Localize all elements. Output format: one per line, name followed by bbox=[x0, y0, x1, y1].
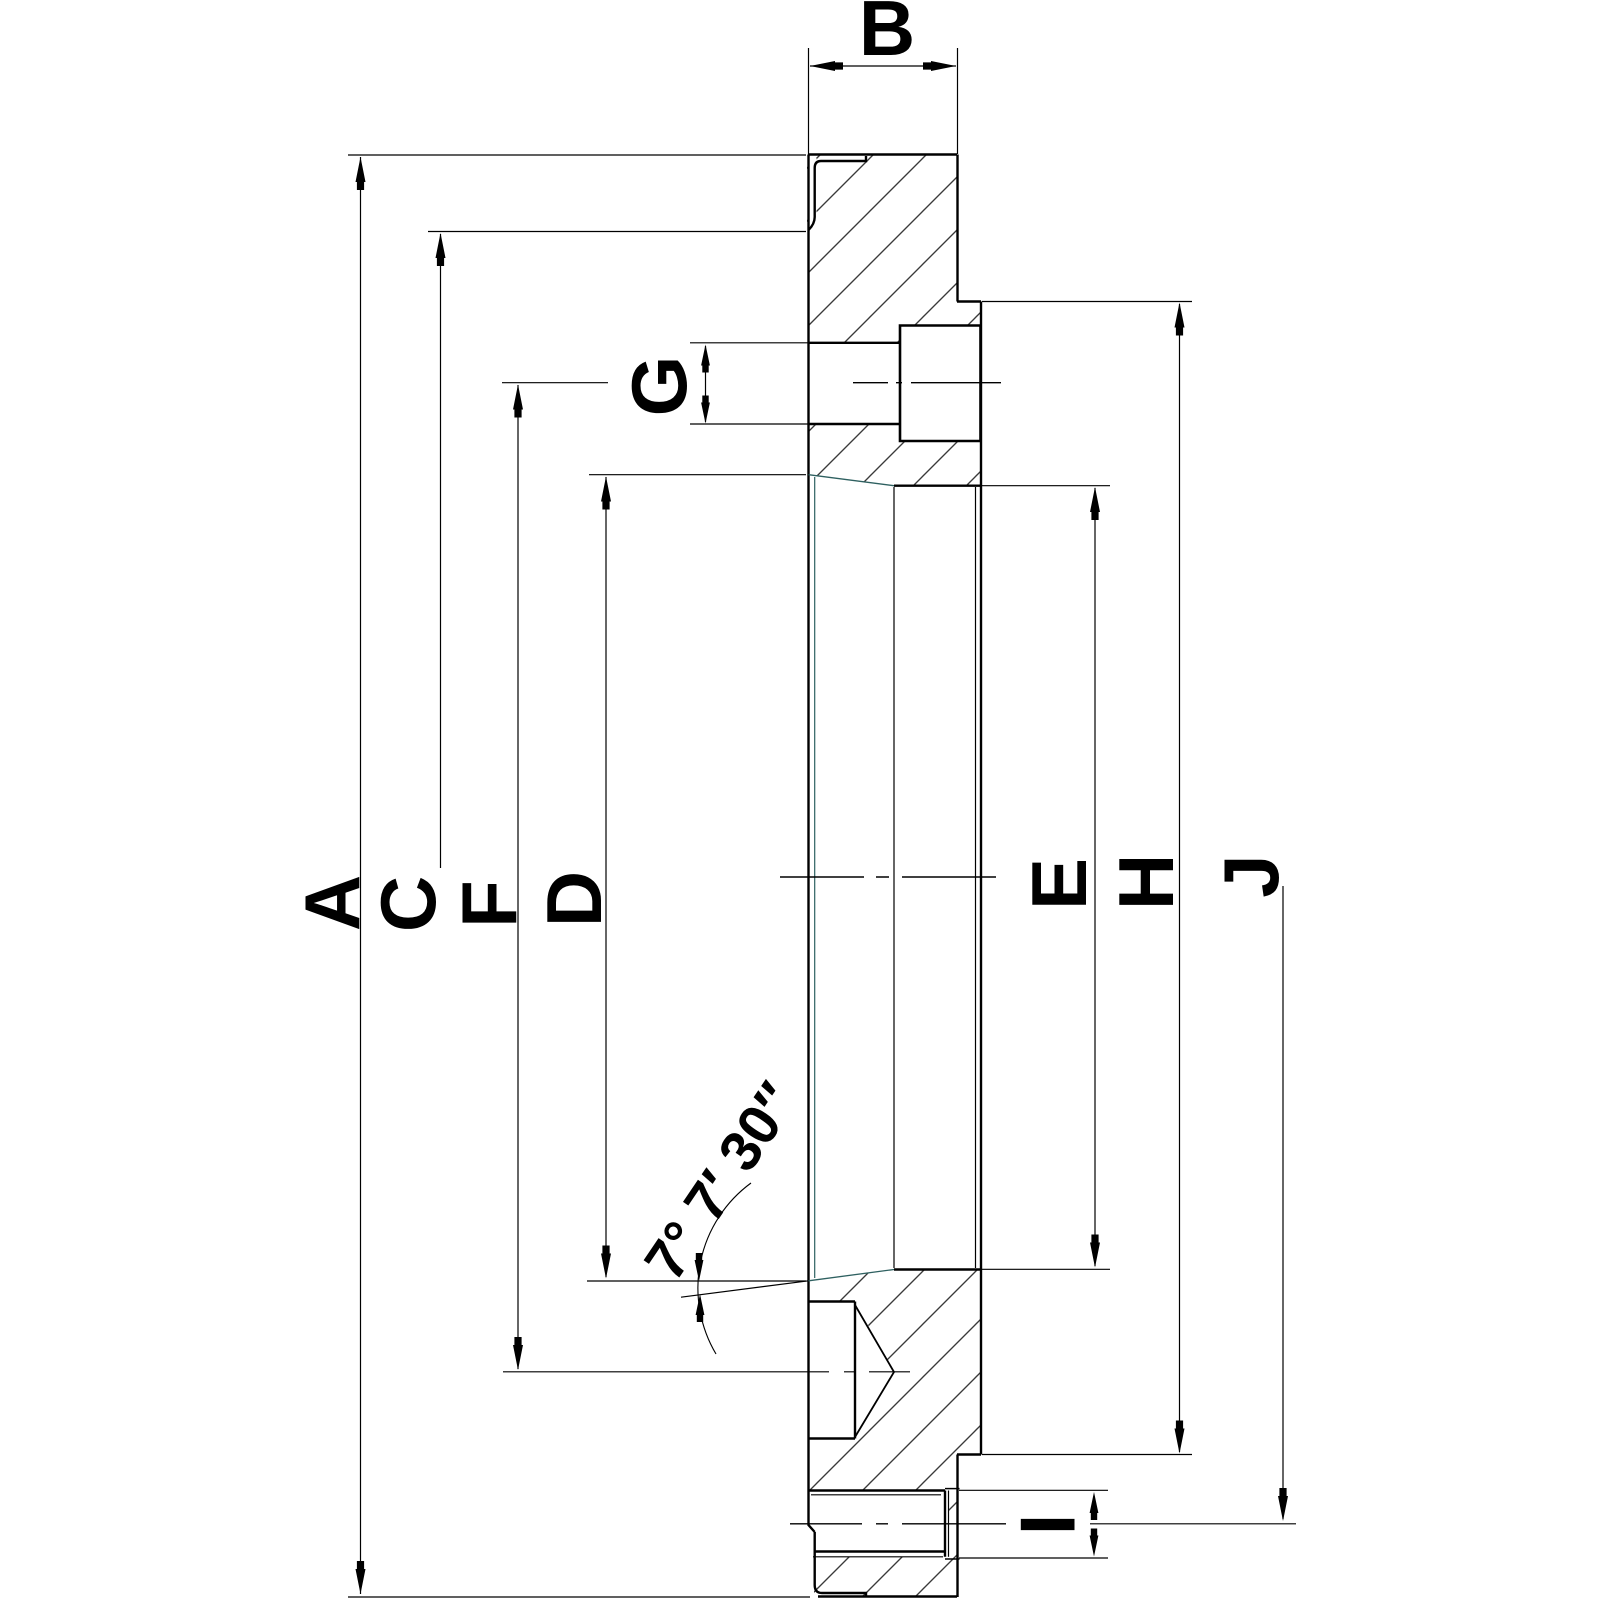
extension line H bottom bbox=[982, 1454, 1192, 1456]
svg-text:B: B bbox=[859, 0, 915, 72]
counterbore bottom edge bbox=[808, 1437, 855, 1439]
svg-text:I: I bbox=[1004, 1514, 1092, 1536]
flange right face lower bbox=[956, 1455, 958, 1598]
dimension line G bbox=[705, 346, 707, 422]
collar step bottom bbox=[957, 1453, 981, 1455]
bore back chamfer circle bbox=[975, 487, 977, 1268]
svg-text:G: G bbox=[615, 356, 703, 417]
thread minor line bottom bbox=[813, 1556, 943, 1558]
angle arc arrow upper bbox=[695, 1253, 704, 1281]
taper-cylinder transition circle bbox=[893, 487, 895, 1268]
extension line I bottom bbox=[959, 1557, 1108, 1559]
thread hole centerline bbox=[790, 1523, 1006, 1525]
svg-text:J: J bbox=[1207, 854, 1295, 897]
svg-text:A: A bbox=[288, 875, 376, 931]
taper bore upper line bbox=[809, 475, 895, 486]
stud centerline bbox=[853, 382, 1001, 384]
flange right face upper bbox=[956, 155, 958, 302]
dimension line E bbox=[1094, 488, 1096, 1266]
thread end bottom jog to back face bbox=[945, 1558, 960, 1560]
bore entrance chamfer circle bbox=[814, 477, 816, 1278]
hatch upper flange plate bbox=[807, 155, 981, 343]
stud white body bbox=[900, 326, 981, 442]
svg-text:C: C bbox=[364, 876, 452, 932]
flange top face bbox=[808, 153, 957, 155]
dimension line F bbox=[517, 385, 519, 1369]
dimension line B bbox=[810, 65, 956, 67]
camlock stud outline bbox=[900, 326, 981, 442]
counterbore top edge bbox=[808, 1300, 855, 1302]
thread centerline right extension toward J bbox=[1090, 1523, 1296, 1525]
extension line E top bbox=[976, 485, 1110, 487]
svg-text:H: H bbox=[1102, 854, 1190, 910]
counterbore flat wall bbox=[854, 1302, 856, 1439]
flange front face bbox=[809, 155, 815, 1533]
front recess contour top bbox=[809, 156, 867, 230]
dimension line J bbox=[1282, 886, 1284, 1519]
thread hole bottom edge bbox=[815, 1550, 946, 1552]
cylindrical bore upper line bbox=[894, 485, 981, 487]
counterbore centerline and F lower extension bbox=[503, 1371, 910, 1373]
extension line B left bbox=[808, 48, 810, 154]
thread hole end chamfer bbox=[948, 1491, 950, 1557]
hatch band between stud hole and taper bore bbox=[808, 424, 981, 486]
collar rear face bbox=[980, 302, 982, 1455]
dimension line A bbox=[360, 157, 362, 1594]
taper bore lower line bbox=[809, 1270, 895, 1281]
extension line A bottom bbox=[348, 1596, 810, 1598]
extension line G top bbox=[690, 342, 808, 344]
front recess contour bottom bbox=[815, 1532, 866, 1597]
extension line B right bbox=[957, 48, 959, 154]
hatch lower flange body with counterbore and thread hole cut out bbox=[808, 1270, 981, 1598]
svg-text:F: F bbox=[445, 880, 533, 928]
extension line D top bbox=[589, 474, 806, 476]
svg-text:7° 7′ 30″: 7° 7′ 30″ bbox=[633, 1071, 810, 1291]
extension line D bottom bbox=[587, 1280, 806, 1282]
extension line I top bbox=[959, 1489, 1108, 1491]
extension line G bottom bbox=[690, 423, 808, 425]
thread hole top edge bbox=[808, 1489, 945, 1491]
extension line C top bbox=[428, 231, 806, 233]
thread minor line top bbox=[811, 1494, 941, 1496]
thread hole end wall bbox=[944, 1491, 946, 1557]
svg-text:E: E bbox=[1015, 858, 1103, 910]
thread end top jog to back face bbox=[945, 1488, 960, 1490]
counterbore cone bbox=[855, 1305, 894, 1437]
extension line E bottom bbox=[976, 1268, 1110, 1270]
angle arc arrow lower bbox=[696, 1294, 705, 1322]
dimension line D bbox=[605, 477, 607, 1277]
cam stud hole upper edge bbox=[808, 342, 900, 344]
cylindrical bore lower line bbox=[894, 1268, 981, 1270]
extension line A top bbox=[348, 154, 806, 156]
main axis centerline bbox=[780, 876, 996, 878]
taper angle extension line bbox=[681, 1281, 809, 1297]
dimension line C bbox=[440, 234, 442, 868]
dimension arrows I bbox=[1093, 1496, 1095, 1518]
collar step top bbox=[957, 300, 981, 302]
extension line H top bbox=[982, 301, 1192, 303]
angle dimension arc bbox=[698, 1183, 751, 1354]
dimension line H bbox=[1179, 304, 1181, 1452]
svg-text:D: D bbox=[530, 871, 618, 927]
extension line F top bbox=[502, 382, 608, 384]
flange bottom face bbox=[818, 1595, 957, 1597]
cam stud hole lower edge bbox=[808, 423, 900, 425]
